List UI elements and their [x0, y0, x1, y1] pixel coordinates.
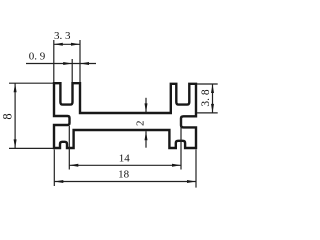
arrowhead 3.3 right — [71, 43, 80, 46]
svg-text:3. 3: 3. 3 — [54, 30, 71, 42]
arrowhead 18 right — [187, 180, 196, 183]
dim 2 upper leader — [145, 98, 147, 113]
dim 3.3 / 0.9 shared extension line right — [79, 40, 81, 82]
arrowhead 3.3 left — [54, 43, 63, 46]
arrowhead 2 lower pointing up — [145, 131, 148, 140]
arrowhead 0.9 pointing left — [80, 62, 89, 65]
svg-text:3. 8: 3. 8 — [200, 89, 212, 107]
dim 18 right extension line — [195, 150, 197, 188]
dim 3.8 top extension line — [197, 83, 218, 85]
arrowhead 8 top — [14, 83, 17, 92]
svg-text:0. 9: 0. 9 — [29, 51, 46, 63]
dim 3.8 dimension line — [212, 84, 214, 113]
dim 8 bottom extension line — [9, 147, 53, 149]
dim 0.9 dimension line — [26, 63, 96, 65]
arrowhead 18 left — [54, 180, 63, 183]
dim 18 dimension line — [54, 181, 196, 183]
svg-text:2: 2 — [134, 120, 146, 126]
arrowhead 14 right — [172, 164, 181, 167]
arrowhead 3.8 bottom — [211, 104, 214, 113]
dim 2 lower leader — [145, 131, 147, 148]
dim 14 dimension line — [69, 164, 181, 166]
dim 0.9 extension line inner — [71, 59, 73, 82]
dim 14 left extension line — [68, 126, 70, 170]
arrowhead 0.9 pointing right — [63, 62, 72, 65]
svg-text:8: 8 — [0, 113, 14, 119]
svg-text:18: 18 — [118, 169, 130, 181]
arrowhead 2 upper pointing down — [145, 103, 148, 112]
dim 14 right extension line — [180, 117, 182, 170]
dim 3.8 bottom extension line — [197, 112, 218, 114]
arrowhead 8 bottom — [14, 139, 17, 148]
arrowhead 14 left — [69, 164, 78, 167]
dim 8 top extension line — [9, 82, 53, 84]
arrowhead 3.8 top — [211, 84, 214, 93]
dim 3.3 extension line left — [53, 40, 55, 82]
dim 8 dimension line — [14, 83, 16, 148]
svg-text:14: 14 — [119, 152, 131, 164]
dim 3.3 dimension line — [54, 43, 80, 45]
profile outline (heatsink extrusion cross-section) — [54, 83, 196, 148]
dim 18 left extension line — [53, 150, 55, 187]
